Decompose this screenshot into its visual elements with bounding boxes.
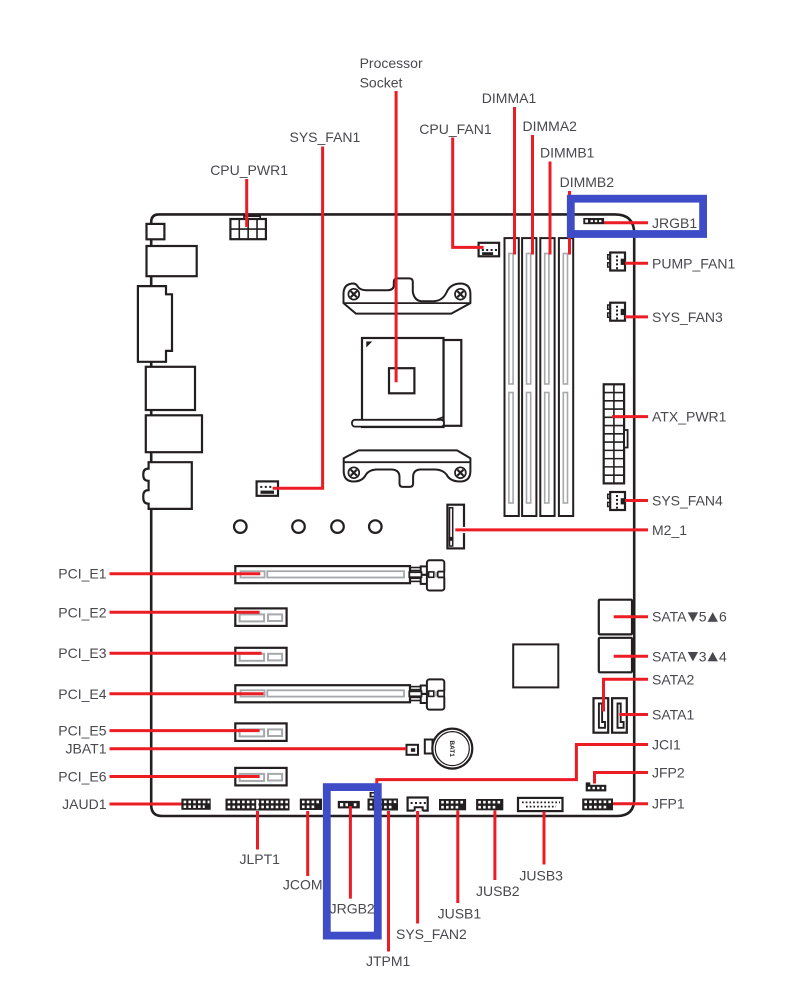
svg-text:PCI_E3: PCI_E3: [58, 645, 106, 661]
svg-text:PCI_E5: PCI_E5: [58, 723, 106, 739]
wire leader JUSB3: [543, 812, 546, 865]
highlight box JRGB2: [327, 787, 378, 936]
svg-text:JAUD1: JAUD1: [62, 796, 107, 812]
svg-text:JFP1: JFP1: [652, 796, 685, 812]
wire leader M2_1: [455, 528, 648, 531]
connector ATX_PWR1 (24-pin ATX power): [604, 384, 624, 483]
connector JTPM1 (TPM header): [368, 799, 399, 811]
svg-text:4: 4: [719, 648, 727, 664]
PCI_E1 retention latch: [410, 567, 424, 569]
screw on bottom bracket left: [348, 467, 359, 478]
wire leader JCI1: [377, 745, 648, 794]
connector PUMP_FAN1 (4-pin pump fan): [608, 255, 611, 259]
mounting hole 2: [292, 520, 305, 533]
wire leader DIMMA1: [513, 107, 516, 255]
PCI_E6 slot (x1): [235, 768, 286, 786]
connector JUSB1 (USB 2.0 header): [439, 799, 466, 810]
wire leader PCI_E2: [110, 611, 260, 614]
DIMM slot DIMMB1: [540, 238, 554, 516]
PCI_E4 retention latch: [410, 686, 424, 688]
connector SYS_FAN3 (4-pin fan): [608, 305, 611, 309]
wire leader PCI_E1: [110, 572, 261, 575]
rear I/O port 5 (LAN/USB block): [146, 415, 202, 452]
connector CPU_FAN1 (4-pin fan): [479, 243, 500, 256]
connector SATA1 (vertical port): [612, 698, 627, 733]
connector SYS_FAN1 (4-pin fan): [257, 481, 278, 495]
rear I/O port 3 (video connector): [138, 286, 172, 362]
screw on bottom bracket right: [455, 467, 466, 478]
wire leader CPU_PWR1: [245, 179, 248, 227]
processor socket lever: [352, 420, 444, 427]
svg-text:DIMMA1: DIMMA1: [482, 90, 537, 106]
svg-text:SYS_FAN3: SYS_FAN3: [652, 309, 723, 325]
wire leader CPU_FAN1: [453, 138, 484, 248]
wire leader PCI_E6: [110, 775, 260, 778]
svg-text:DIMMB1: DIMMB1: [540, 145, 595, 161]
wire leader SATA 3/4: [614, 655, 648, 658]
wire leader SATA2: [604, 679, 649, 711]
svg-text:JUSB3: JUSB3: [519, 867, 563, 883]
svg-text:JUSB2: JUSB2: [476, 883, 520, 899]
connector SATA 5/6 (stacked ports): [599, 600, 632, 635]
wire board outline (PCB edge): [151, 214, 634, 816]
DIMM slot DIMMA2: [522, 238, 536, 516]
mounting hole 1: [234, 520, 247, 533]
svg-text:SATA: SATA: [652, 609, 687, 625]
wire leader SYS_FAN4: [625, 499, 648, 502]
svg-text:PCI_E1: PCI_E1: [58, 566, 106, 582]
svg-text:3: 3: [699, 648, 707, 664]
wire leader DIMMA2: [531, 135, 534, 255]
connector JLPT1 (parallel port header): [226, 799, 290, 811]
connector JFP2 (front panel header 2): [586, 782, 591, 785]
connector SATA2 (vertical port): [594, 698, 609, 733]
mounting hole 4: [369, 520, 382, 533]
svg-text:DIMMB2: DIMMB2: [560, 174, 615, 190]
wire leader DIMMB2: [568, 191, 571, 255]
svg-text:PCI_E6: PCI_E6: [58, 769, 106, 785]
svg-text:JTPM1: JTPM1: [366, 953, 411, 969]
svg-text:SATA1: SATA1: [652, 707, 694, 723]
svg-text:CPU_PWR1: CPU_PWR1: [210, 162, 288, 178]
svg-text:SYS_FAN4: SYS_FAN4: [652, 493, 723, 509]
svg-text:PCI_E2: PCI_E2: [58, 604, 106, 620]
wire leader JTPM1: [387, 811, 390, 952]
connector JCI1 (chassis intrusion header): [370, 792, 382, 798]
svg-text:PUMP_FAN1: PUMP_FAN1: [652, 255, 735, 271]
connector JUSB2 (USB 2.0 header): [476, 799, 503, 810]
wire leader JAUD1: [110, 803, 182, 806]
processor socket flap: [444, 340, 462, 426]
svg-text:JFP2: JFP2: [652, 765, 685, 781]
wire leader PCI_E4: [110, 692, 264, 695]
svg-text:JCI1: JCI1: [652, 737, 681, 753]
svg-text:M2_1: M2_1: [652, 522, 687, 538]
highlight box JRGB1: [571, 199, 703, 234]
wire leader DIMMB1: [549, 162, 552, 255]
wire leader PCI_E3: [110, 652, 262, 655]
svg-text:SATA2: SATA2: [652, 671, 694, 687]
rear I/O port 1 (small): [147, 224, 165, 239]
svg-text:CPU_FAN1: CPU_FAN1: [419, 121, 492, 137]
PCI_E1 slot (x16): [235, 566, 410, 583]
wire leader JLPT1: [256, 811, 259, 850]
wire leader SYS_FAN1: [273, 147, 323, 489]
battery BAT1: [425, 740, 433, 754]
svg-text:BAT1: BAT1: [448, 740, 455, 757]
svg-text:SYS_FAN2: SYS_FAN2: [396, 926, 467, 942]
PCI_E2 slot (x1): [235, 608, 286, 626]
wire leader Processor Socket: [395, 91, 398, 382]
PCI_E3 slot (x1): [235, 648, 286, 666]
connector SATA 3/4 (stacked ports): [599, 638, 632, 673]
processor socket outer square: [362, 338, 444, 427]
wire leader JFP1: [613, 802, 648, 805]
svg-text:JBAT1: JBAT1: [66, 741, 107, 757]
wire leader SYS_FAN2: [416, 811, 419, 924]
mounting hole 3: [331, 520, 344, 533]
DIMM slot DIMMA1: [505, 238, 519, 516]
wire leader SATA 5/6: [614, 615, 648, 618]
svg-text:6: 6: [719, 609, 727, 625]
PCI_E5 slot (x1): [235, 723, 286, 741]
svg-text:JLPT1: JLPT1: [240, 851, 281, 867]
connector JRGB1 (RGB LED header): [583, 218, 604, 224]
wire leader JCOM1: [306, 811, 309, 876]
DIMM slot DIMMB2: [559, 238, 573, 516]
wire leader PCI_E5: [110, 729, 260, 732]
connector SYS_FAN2 (4-pin fan): [408, 798, 428, 811]
svg-text:5: 5: [699, 609, 707, 625]
chipset square: [513, 644, 558, 687]
PCI_E4 slot (x16): [235, 685, 410, 702]
wire leader PUMP_FAN1: [625, 262, 648, 265]
rear I/O port 2 (USB block): [147, 246, 197, 276]
rear I/O port 6 (audio jacks): [143, 462, 192, 509]
CPU bracket bottom: [344, 450, 471, 487]
svg-text:PCI_E4: PCI_E4: [58, 686, 106, 702]
svg-text:Socket: Socket: [360, 75, 403, 91]
svg-text:JRGB2: JRGB2: [330, 900, 375, 916]
connector M2_1 (M.2 slot): [447, 505, 464, 549]
wire leader SATA1: [619, 713, 648, 716]
connector JAUD1 (front audio header): [181, 799, 210, 810]
wire leader SYS_FAN3: [625, 315, 648, 318]
wire leader JFP2: [595, 773, 649, 784]
connector CPU_PWR1 (8-pin EPS power): [244, 216, 260, 219]
screw on top bracket right: [455, 289, 466, 300]
connector SYS_FAN4 (4-pin fan): [608, 494, 611, 498]
svg-text:DIMMA2: DIMMA2: [523, 118, 578, 134]
connector JUSB3 (USB 3.2 header): [518, 798, 563, 811]
connector JCOM1 (serial port header): [300, 799, 322, 810]
rear I/O port 4 (USB block): [146, 367, 195, 410]
jumper JBAT1 (clear CMOS): [407, 745, 419, 755]
connector JFP1 (front panel header 1): [582, 799, 613, 811]
svg-text:SYS_FAN1: SYS_FAN1: [290, 129, 361, 145]
wire leader JRGB2: [349, 806, 352, 899]
CPU bracket top: [344, 278, 471, 313]
wire leader ATX_PWR1: [612, 415, 648, 418]
svg-text:JRGB1: JRGB1: [652, 215, 697, 231]
svg-text:JUSB1: JUSB1: [438, 906, 482, 922]
wire leader JRGB1: [604, 221, 648, 224]
connector JRGB2 (RGB LED header): [338, 801, 360, 809]
processor socket pin-1 triangle: [366, 342, 372, 348]
wire leader JUSB1: [456, 811, 459, 904]
wire leader JBAT1: [110, 747, 407, 750]
processor socket inner square: [389, 368, 414, 393]
wire leader JUSB2: [493, 811, 496, 881]
svg-text:SATA: SATA: [652, 648, 687, 664]
svg-text:ATX_PWR1: ATX_PWR1: [652, 409, 727, 425]
screw on top bracket left: [348, 289, 359, 300]
svg-text:Processor: Processor: [360, 55, 423, 71]
